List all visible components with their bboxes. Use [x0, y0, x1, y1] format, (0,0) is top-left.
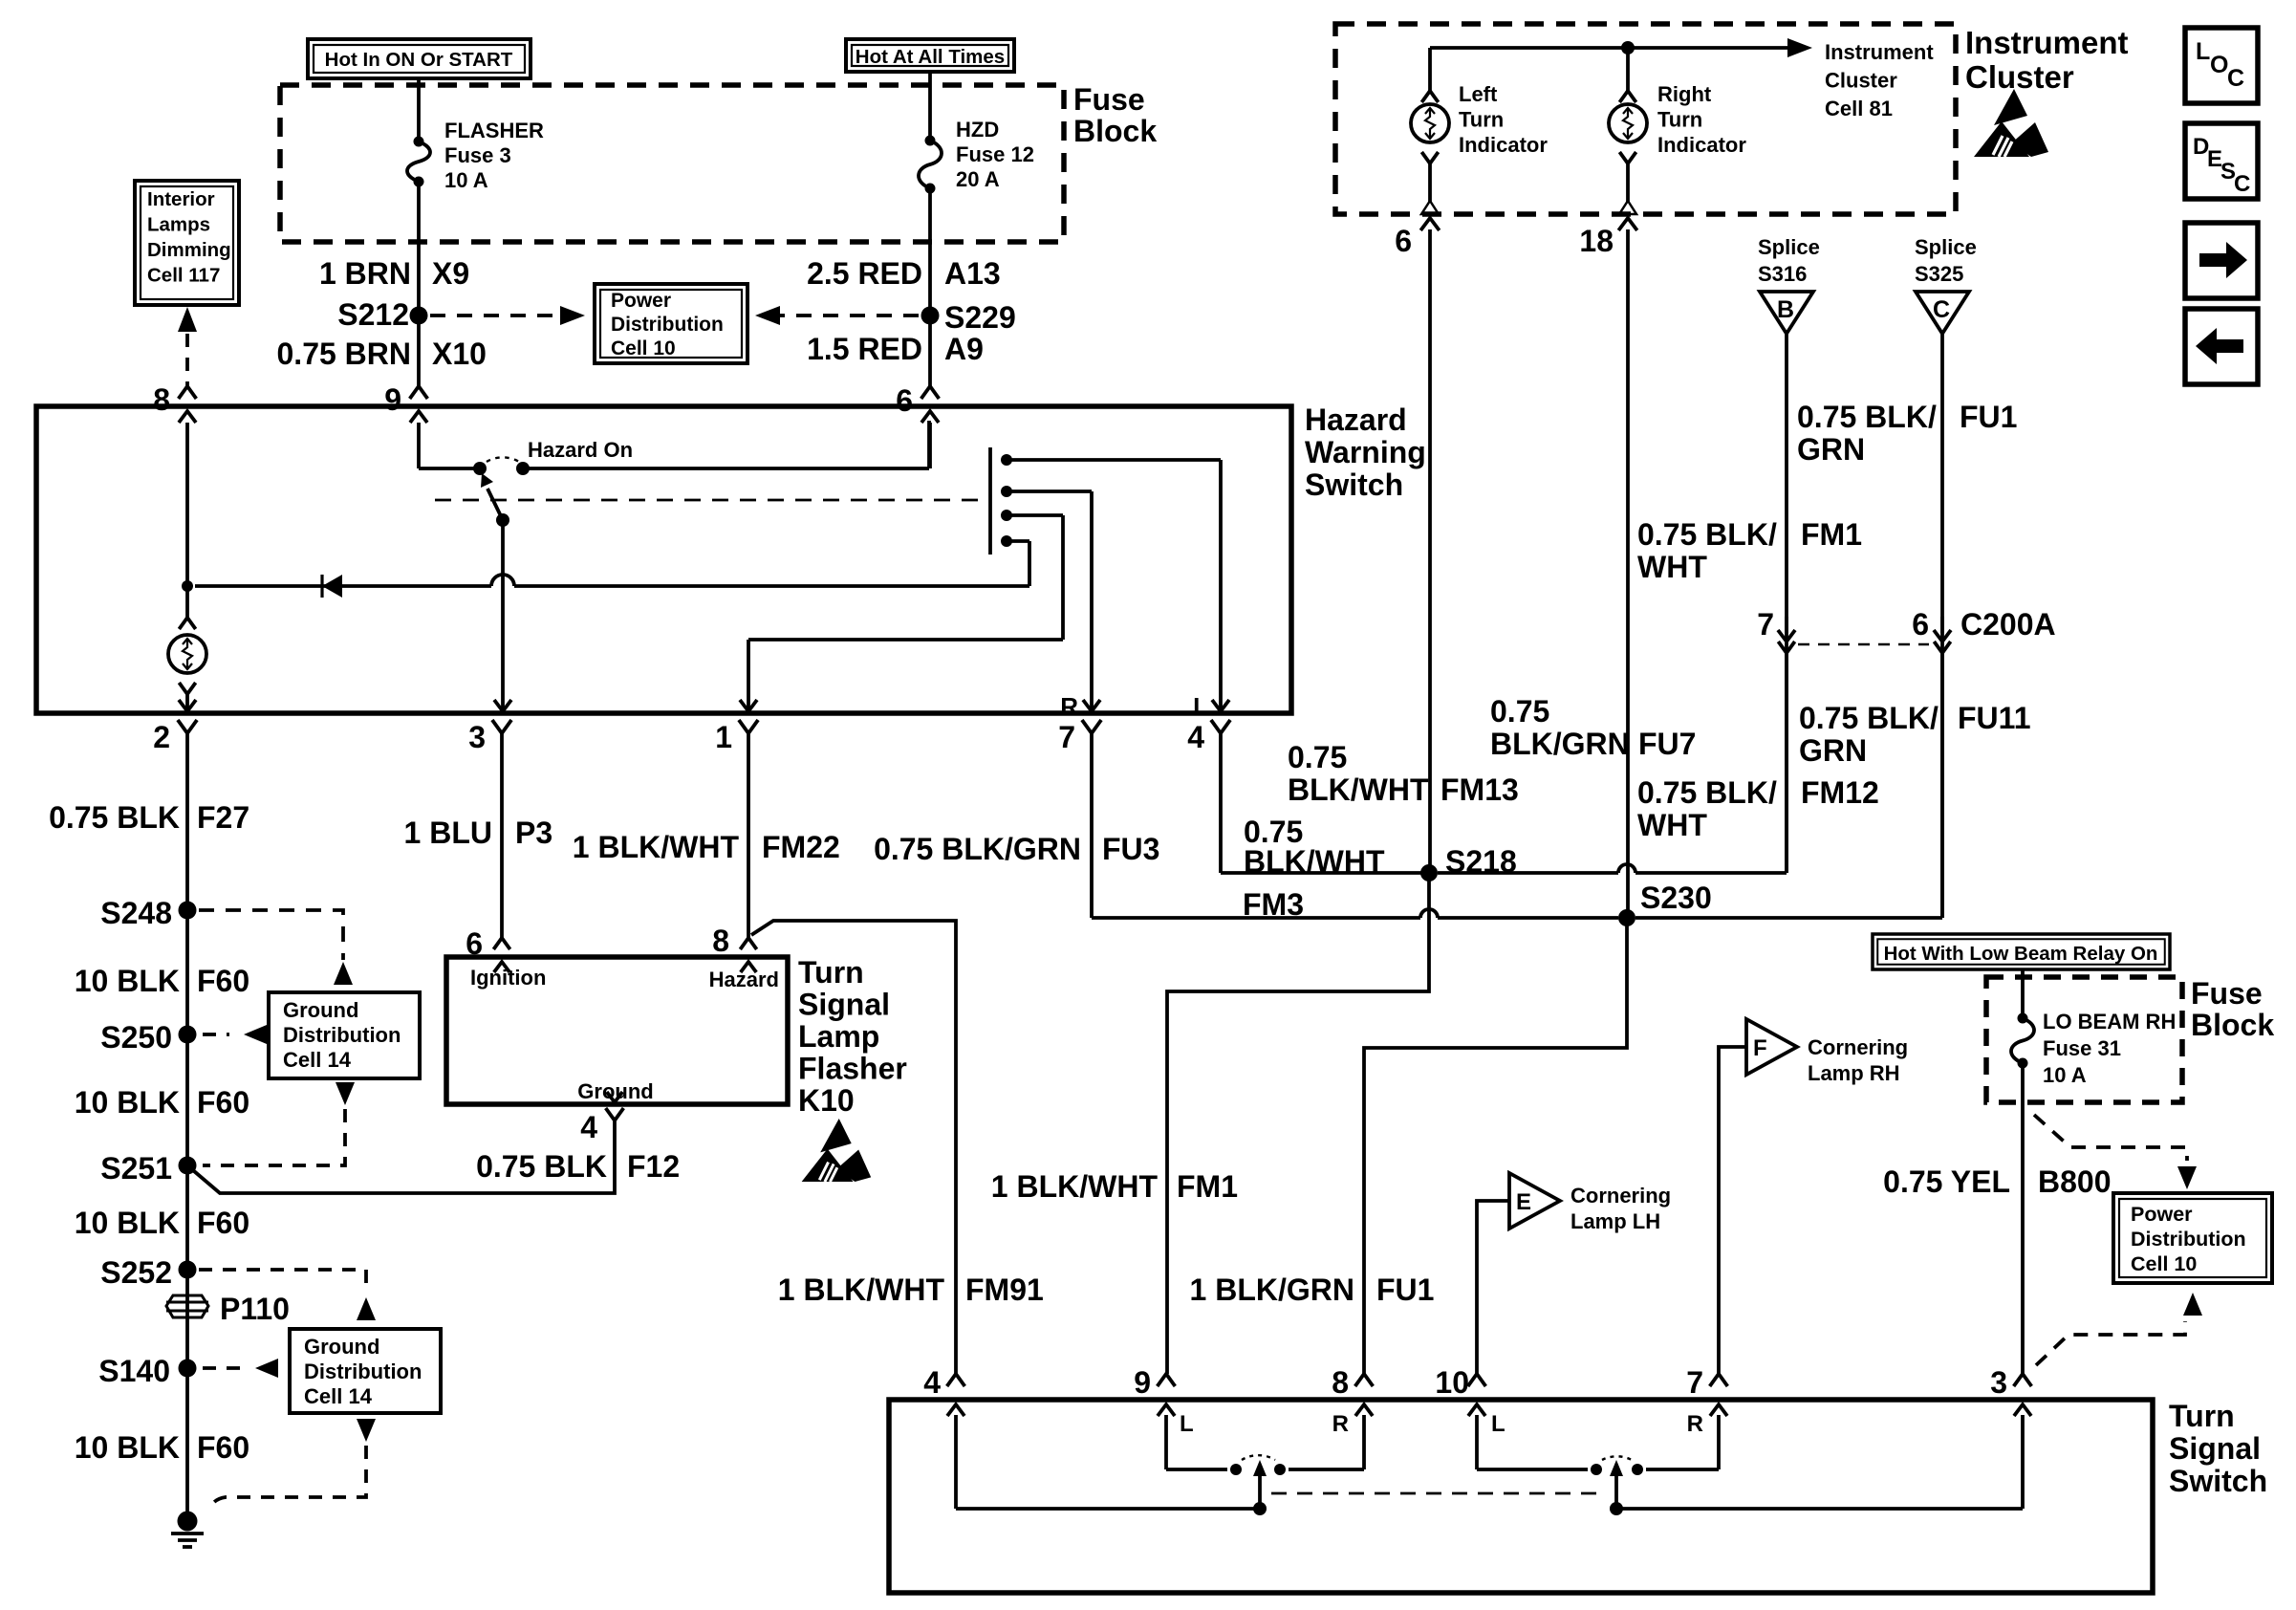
pin arrow to box bottom pin 2	[179, 700, 196, 711]
legend box DESC	[2185, 123, 2258, 199]
wire contact to pin 6	[523, 467, 929, 470]
component box Hazard Warning Switch	[36, 406, 1291, 713]
component box Ground Distribution Cell 14	[269, 992, 420, 1078]
wire S218 to FM1 splice wire with hop	[1438, 871, 1618, 875]
svg-text:1: 1	[715, 720, 732, 754]
svg-text:Instrument: Instrument	[1965, 25, 2129, 60]
svg-text:6: 6	[1395, 224, 1412, 258]
svg-text:X10: X10	[432, 337, 487, 371]
switch pivot junction	[473, 462, 487, 475]
splice S248	[179, 902, 197, 920]
svg-text:0.75 BLK/GRN: 0.75 BLK/GRN	[874, 832, 1081, 866]
dashed arrow S140 to ground distribution 2	[203, 1366, 241, 1370]
wire S230 to FU1 splice wire	[1635, 916, 1942, 920]
hazard-on moving contact dashed arc	[487, 457, 519, 462]
svg-text:Fuse 12: Fuse 12	[956, 142, 1034, 166]
svg-text:Cluster: Cluster	[1965, 59, 2074, 95]
cornering lamp LH triangle E	[1509, 1173, 1560, 1229]
svg-text:L: L	[2196, 38, 2210, 65]
splice S229	[921, 307, 940, 325]
wire B800	[2021, 1063, 2025, 1374]
wire P3	[500, 733, 504, 938]
svg-text:10 A: 10 A	[2043, 1063, 2087, 1087]
svg-text:8: 8	[712, 924, 729, 958]
wire FU1 down from S230	[1364, 918, 1627, 1374]
svg-text:Cornering: Cornering	[1570, 1184, 1671, 1207]
svg-text:HZD: HZD	[956, 118, 999, 141]
pin arrow into flasher pin 6	[494, 962, 510, 972]
component box Interior Lamps Dimming Cell 117	[135, 181, 239, 305]
svg-text:Switch: Switch	[2169, 1464, 2267, 1498]
svg-text:B800: B800	[2038, 1164, 2112, 1199]
left switch section wiring	[1166, 1468, 1227, 1471]
svg-text:1 BRN: 1 BRN	[319, 256, 411, 291]
svg-text:S230: S230	[1640, 881, 1712, 915]
svg-text:1.5 RED: 1.5 RED	[807, 332, 922, 366]
svg-text:1 BLK/WHT: 1 BLK/WHT	[991, 1169, 1159, 1204]
svg-text:S140: S140	[98, 1354, 170, 1388]
svg-text:F60: F60	[197, 964, 249, 998]
svg-text:8: 8	[153, 382, 170, 417]
label box Hot In ON Or START	[308, 39, 531, 78]
svg-text:1 BLK/WHT: 1 BLK/WHT	[778, 1273, 945, 1307]
svg-text:Lamp LH: Lamp LH	[1570, 1209, 1660, 1233]
legend box right arrow	[2185, 223, 2258, 298]
svg-text:Cell 14: Cell 14	[283, 1048, 352, 1072]
pin arrow to box bottom pin 1	[740, 700, 757, 711]
svg-text:S251: S251	[100, 1151, 172, 1186]
svg-text:Flasher: Flasher	[798, 1052, 907, 1086]
svg-text:FU1: FU1	[1960, 400, 2017, 434]
hazard switch contact bar	[988, 447, 992, 555]
component box Turn Signal Switch	[889, 1400, 2153, 1593]
svg-text:10 BLK: 10 BLK	[75, 1430, 180, 1465]
svg-text:F12: F12	[627, 1149, 680, 1184]
component box Turn Signal Lamp Flasher	[446, 957, 788, 1104]
wire lamp feed with crossover hop	[514, 584, 1029, 588]
arrow to Instrument Cluster Cell 81	[1628, 46, 1793, 50]
svg-text:0.75 BLK: 0.75 BLK	[49, 800, 180, 835]
wire F27 ground chain	[185, 733, 189, 1512]
wire FM1 down from S218	[1167, 873, 1429, 1374]
svg-text:WHT: WHT	[1637, 550, 1707, 584]
wire into LO BEAM fuse	[2021, 969, 2025, 1018]
svg-text:10 A: 10 A	[444, 168, 488, 192]
svg-text:Block: Block	[1073, 114, 1157, 148]
wire hazard-on feed	[419, 467, 480, 470]
wire FM22	[747, 733, 750, 938]
grommet P110	[166, 1295, 208, 1317]
wire FU3 from hazard pin 7	[1090, 733, 1094, 918]
dashed branch B800 to power distribution	[2034, 1115, 2187, 1161]
svg-text:6: 6	[1912, 607, 1929, 642]
svg-text:Indicator: Indicator	[1657, 133, 1746, 157]
svg-text:Signal: Signal	[798, 988, 890, 1022]
svg-text:Lamps: Lamps	[147, 214, 210, 236]
svg-text:FU7: FU7	[1638, 727, 1696, 761]
svg-text:Cell 10: Cell 10	[2131, 1252, 2197, 1275]
svg-text:C: C	[1933, 296, 1950, 323]
svg-text:C: C	[2227, 65, 2244, 92]
wire FM1 from S316	[1785, 334, 1788, 873]
junction dot at right lamp feed	[1621, 41, 1635, 54]
right switch feed	[1616, 1507, 2023, 1511]
svg-text:7: 7	[1757, 607, 1774, 642]
svg-text:L: L	[1180, 1411, 1194, 1437]
splice S230	[1618, 909, 1635, 926]
diode	[320, 575, 323, 598]
svg-text:0.75 BLK/: 0.75 BLK/	[1799, 701, 1939, 735]
svg-text:4: 4	[923, 1365, 941, 1400]
svg-text:S250: S250	[100, 1020, 172, 1055]
svg-text:LO BEAM RH: LO BEAM RH	[2043, 1010, 2176, 1033]
svg-text:Dimming: Dimming	[147, 239, 231, 261]
svg-text:Hazard: Hazard	[1305, 402, 1407, 437]
svg-text:X9: X9	[432, 256, 469, 291]
pin arrow to box bottom pin 3	[494, 700, 511, 711]
wire to cornering lamp LH	[1477, 1201, 1509, 1374]
svg-text:Indicator: Indicator	[1459, 133, 1548, 157]
component box Power Distribution Cell 10 lower	[2113, 1193, 2272, 1283]
svg-text:A9: A9	[944, 332, 984, 366]
dashed arrow S250 to ground distribution	[203, 1033, 229, 1036]
svg-text:L: L	[1491, 1411, 1505, 1437]
svg-text:O: O	[2210, 52, 2228, 78]
svg-text:Power: Power	[2131, 1203, 2193, 1226]
svg-text:3: 3	[1990, 1365, 2007, 1400]
wire to cornering lamp RH	[1719, 1047, 1746, 1374]
svg-text:0.75 BRN: 0.75 BRN	[277, 337, 412, 371]
svg-text:FU3: FU3	[1102, 832, 1159, 866]
svg-text:FM12: FM12	[1801, 775, 1879, 810]
svg-text:6: 6	[896, 383, 913, 418]
svg-text:E: E	[1516, 1189, 1531, 1215]
contact dot to lamp feed	[1001, 535, 1012, 547]
svg-text:Cluster: Cluster	[1825, 69, 1897, 93]
svg-text:1 BLU: 1 BLU	[404, 816, 492, 850]
dashed mechanical link between switch sections	[1271, 1492, 1598, 1495]
svg-text:Cell 14: Cell 14	[304, 1384, 373, 1408]
switch blade with arrow	[487, 489, 503, 520]
svg-text:FM1: FM1	[1177, 1169, 1238, 1204]
svg-text:Hot At All Times: Hot At All Times	[856, 46, 1005, 68]
dashed arrow S229 to Power Distribution	[767, 314, 919, 317]
svg-text:Instrument: Instrument	[1825, 40, 1934, 64]
right switch section wiring	[1477, 1468, 1588, 1471]
contact dot to L output	[1001, 454, 1012, 466]
contact dot to R output	[1001, 486, 1012, 497]
svg-text:S252: S252	[100, 1255, 172, 1290]
svg-text:0.75: 0.75	[1490, 694, 1549, 729]
svg-text:C: C	[2234, 171, 2250, 197]
svg-text:F27: F27	[197, 800, 249, 835]
label box Hot At All Times	[846, 39, 1014, 72]
svg-text:FU11: FU11	[1958, 701, 2030, 735]
svg-text:Splice: Splice	[1758, 235, 1820, 259]
svg-text:Signal: Signal	[2169, 1431, 2261, 1466]
svg-text:BLK/GRN: BLK/GRN	[1490, 727, 1630, 761]
dashed line switch to hazard contact bar	[435, 499, 986, 502]
svg-text:4: 4	[580, 1110, 597, 1144]
wire S230 line from hazard pin 7	[1092, 916, 1420, 920]
svg-text:Warning: Warning	[1305, 435, 1426, 469]
wire blade to pin 3	[501, 520, 505, 711]
svg-text:0.75 BLK/: 0.75 BLK/	[1637, 517, 1777, 552]
svg-text:18: 18	[1579, 224, 1614, 258]
svg-text:FM22: FM22	[762, 830, 840, 864]
svg-text:Turn: Turn	[2169, 1399, 2235, 1433]
fuse LO BEAM RH Fuse 31 10 A	[2018, 1013, 2028, 1024]
pin 4 of turn signal lamp flasher	[607, 1092, 623, 1102]
svg-text:Fuse 31: Fuse 31	[2043, 1036, 2121, 1060]
svg-text:Splice: Splice	[1915, 235, 1977, 259]
svg-text:Block: Block	[2191, 1008, 2274, 1042]
svg-text:8: 8	[1332, 1365, 1349, 1400]
svg-text:Distribution: Distribution	[611, 314, 724, 336]
svg-text:Turn: Turn	[1459, 108, 1504, 132]
fuse block dashed box	[280, 85, 1064, 242]
svg-text:1 BLK/GRN: 1 BLK/GRN	[1190, 1273, 1354, 1307]
svg-text:FM13: FM13	[1440, 772, 1519, 807]
fuse FLASHER Fuse 3 10 A	[414, 137, 424, 147]
svg-text:F60: F60	[197, 1430, 249, 1465]
svg-text:0.75 BLK: 0.75 BLK	[476, 1149, 607, 1184]
wire X9	[417, 182, 421, 386]
svg-text:FU1: FU1	[1376, 1273, 1434, 1307]
svg-text:Right: Right	[1657, 82, 1712, 106]
pin arrow into box pin 8	[179, 411, 196, 423]
label box Hot With Low Beam Relay On	[1873, 934, 2170, 969]
svg-text:Cell 117: Cell 117	[147, 265, 220, 287]
svg-text:Interior: Interior	[147, 188, 215, 210]
wire from Hot In ON Or START to Flasher fuse	[417, 78, 421, 141]
svg-text:Cell 81: Cell 81	[1825, 97, 1893, 120]
switch contact dot	[516, 462, 530, 475]
svg-text:BLK/WHT: BLK/WHT	[1244, 844, 1385, 879]
splice S251	[179, 1157, 197, 1175]
svg-text:P3: P3	[515, 816, 552, 850]
svg-text:0.75 BLK/: 0.75 BLK/	[1637, 775, 1777, 810]
cornering lamp RH triangle F	[1746, 1019, 1797, 1075]
splice S252	[179, 1261, 197, 1279]
svg-text:L: L	[1193, 692, 1208, 721]
svg-text:FM1: FM1	[1801, 517, 1862, 552]
svg-text:20 A: 20 A	[956, 167, 1000, 191]
svg-text:F60: F60	[197, 1206, 249, 1240]
svg-text:10 BLK: 10 BLK	[75, 1085, 180, 1120]
svg-text:0.75 BLK/: 0.75 BLK/	[1797, 400, 1937, 434]
wire FU1 from S325	[1940, 334, 1944, 918]
svg-text:Hazard On: Hazard On	[528, 438, 633, 462]
svg-text:Distribution: Distribution	[283, 1023, 401, 1047]
svg-text:Fuse: Fuse	[1073, 82, 1145, 117]
dashed arrow Ground Distribution to S251	[336, 1082, 355, 1105]
svg-text:Power: Power	[611, 290, 671, 312]
svg-text:1 BLK/WHT: 1 BLK/WHT	[573, 830, 740, 864]
svg-text:Ground: Ground	[283, 998, 358, 1022]
svg-text:Cell 10: Cell 10	[611, 337, 676, 359]
svg-text:Lamp: Lamp	[798, 1019, 879, 1054]
ESD symbol for K10	[802, 1119, 872, 1182]
svg-text:2: 2	[153, 720, 170, 754]
svg-text:Hot In ON Or START: Hot In ON Or START	[325, 49, 513, 71]
right turn indicator lamp	[1626, 48, 1630, 91]
svg-text:Left: Left	[1459, 82, 1498, 106]
svg-text:WHT: WHT	[1637, 808, 1707, 842]
ESD symbol for instrument cluster	[1974, 89, 2048, 157]
cluster internal feed wire	[1430, 46, 1628, 50]
svg-text:2.5 RED: 2.5 RED	[807, 256, 922, 291]
splice S250	[179, 1026, 197, 1044]
pin arrow into box pin 6	[921, 411, 939, 423]
dashed link S248 to ground distribution	[199, 910, 343, 960]
wire FM3 S218 line from hazard pin 4	[1219, 733, 1223, 873]
splice S218	[1420, 864, 1438, 881]
svg-text:GRN: GRN	[1799, 733, 1867, 768]
component box Ground Distribution Cell 14 lower	[290, 1329, 441, 1413]
svg-text:0.75: 0.75	[1288, 740, 1347, 774]
svg-text:K10: K10	[798, 1083, 855, 1118]
wire A9	[928, 188, 932, 386]
svg-text:10 BLK: 10 BLK	[75, 1206, 180, 1240]
dashed arrow ground distribution 2 to ground	[357, 1419, 376, 1442]
svg-text:R: R	[1060, 692, 1078, 721]
svg-text:FLASHER: FLASHER	[444, 119, 544, 142]
wire from Hot At All Times to HZD fuse	[928, 72, 932, 141]
dashed link S252 to ground distribution 2	[199, 1270, 366, 1293]
left turn indicator lamp	[1428, 48, 1432, 91]
wire S251 to flasher ground F12	[187, 1120, 615, 1193]
fuse HZD Fuse 12 20 A	[925, 136, 936, 146]
svg-text:0.75 YEL: 0.75 YEL	[1883, 1164, 2010, 1199]
pin arrow into flasher pin 8	[741, 962, 757, 972]
pin arrow into box pin 9	[410, 411, 427, 423]
component box Instrument Cluster dashed	[1335, 24, 1956, 214]
svg-text:S248: S248	[100, 896, 172, 930]
ground G100	[178, 1512, 198, 1532]
junction to indicator lamp	[182, 580, 193, 592]
dashed arrow S212 to Power Distribution	[430, 314, 566, 317]
svg-text:Fuse 3: Fuse 3	[444, 143, 511, 167]
svg-text:9: 9	[384, 382, 401, 417]
dashed wire to Interior Lamps Dimming	[178, 307, 197, 332]
contact dot to pin 1 output	[1001, 510, 1012, 521]
svg-text:S316: S316	[1758, 262, 1807, 286]
svg-text:10 BLK: 10 BLK	[75, 964, 180, 998]
svg-text:9: 9	[1134, 1365, 1151, 1400]
svg-text:Turn: Turn	[798, 955, 864, 990]
svg-text:R: R	[1332, 1411, 1349, 1437]
left switch feed	[956, 1507, 1260, 1511]
svg-text:Cornering: Cornering	[1808, 1035, 1908, 1059]
svg-text:Ground: Ground	[304, 1335, 379, 1359]
svg-text:7: 7	[1686, 1365, 1703, 1400]
svg-text:Switch: Switch	[1305, 468, 1403, 502]
svg-text:F60: F60	[197, 1085, 249, 1120]
svg-text:A13: A13	[944, 256, 1001, 291]
svg-text:Hot With Low Beam Relay On: Hot With Low Beam Relay On	[1884, 943, 2158, 965]
fuse block 2 dashed box	[1986, 977, 2182, 1102]
svg-text:FM91: FM91	[965, 1273, 1044, 1307]
svg-text:Distribution: Distribution	[304, 1360, 422, 1383]
svg-text:7: 7	[1058, 720, 1075, 754]
component box Power Distribution Cell 10	[595, 284, 747, 363]
legend box left arrow	[2185, 309, 2258, 384]
wire FM91 branch from flasher pin 8	[751, 921, 956, 1374]
svg-text:F: F	[1753, 1035, 1767, 1061]
svg-text:Distribution: Distribution	[2131, 1228, 2246, 1251]
indicator lamp in hazard switch	[185, 586, 189, 618]
svg-text:10: 10	[1435, 1365, 1469, 1400]
svg-text:P110: P110	[220, 1292, 290, 1326]
svg-text:Lamp RH: Lamp RH	[1808, 1061, 1900, 1085]
svg-text:R: R	[1687, 1411, 1703, 1437]
svg-text:S229: S229	[944, 300, 1016, 335]
svg-text:B: B	[1777, 296, 1794, 323]
svg-text:GRN: GRN	[1797, 432, 1865, 467]
svg-text:Turn: Turn	[1657, 108, 1702, 132]
svg-text:C200A: C200A	[1960, 607, 2056, 642]
svg-text:S325: S325	[1915, 262, 1963, 286]
svg-text:S212: S212	[337, 297, 409, 332]
svg-text:Hazard: Hazard	[709, 968, 779, 991]
splice S140	[179, 1360, 197, 1378]
svg-text:4: 4	[1187, 720, 1204, 754]
legend box LOC	[2185, 28, 2258, 103]
svg-text:Fuse: Fuse	[2191, 976, 2263, 1011]
svg-text:3: 3	[468, 720, 486, 754]
svg-text:BLK/WHT: BLK/WHT	[1288, 772, 1429, 807]
connector C200A dashed link	[1798, 643, 1929, 646]
dashed branch turn signal pin 3 to power distribution	[2036, 1321, 2185, 1365]
